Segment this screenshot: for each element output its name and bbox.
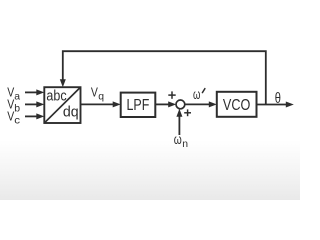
svg-text:VCO: VCO [223,97,250,114]
svg-text:LPF: LPF [127,97,150,114]
arrowhead feedback into abc/dq top [60,79,66,87]
wire Vc input [25,115,38,117]
block LPF [121,93,156,117]
arrowhead theta output [286,102,294,108]
label Va [7,85,20,103]
svg-text:V: V [7,109,14,124]
arrowhead Vq into LPF [113,101,121,107]
svg-text:V: V [91,85,98,100]
svg-text:q: q [98,91,104,103]
svg-text:b: b [14,102,20,114]
svg-text:dq: dq [63,103,79,120]
arrowhead omega-prime into VCO [209,101,217,107]
plus sign upper-left of summing junction [168,91,175,98]
wire Vb input [25,103,38,105]
label Vb [7,97,20,115]
plus sign lower-right of summing junction [184,109,191,116]
label omega-n [174,132,188,150]
svg-text:ω: ω [174,132,182,147]
wire omega-n input from bottom [178,115,180,135]
svg-text:θ: θ [275,90,281,107]
arrowhead Va into abc/dq [36,89,44,95]
label omega-prime [193,87,205,102]
wire Vq: abc/dq output to LPF [81,103,115,105]
svg-text:ω: ω [193,87,200,102]
block VCO [217,92,257,117]
svg-text:abc: abc [46,88,67,105]
label Vq [91,85,104,103]
wire VCO output to theta [257,104,288,106]
wire omega-prime: summing junction to VCO [185,103,211,105]
wire feedback theta to abc/dq (up, across top, down) [63,51,266,104]
wire LPF output to summing junction [156,103,171,105]
svg-text:c: c [14,114,20,126]
arrowhead Vc into abc/dq [36,113,44,119]
label Vc [7,109,20,127]
arrowhead into summing junction [168,101,176,107]
svg-text:n: n [182,138,188,150]
svg-text:a: a [14,90,20,102]
wire Va input [25,91,38,93]
summing junction [176,100,185,109]
block abc/dq transform [44,87,80,123]
diagonal of abc/dq block [45,88,80,122]
arrowhead omega-n into summing junction [176,109,182,117]
arrowhead Vb into abc/dq [36,101,44,107]
